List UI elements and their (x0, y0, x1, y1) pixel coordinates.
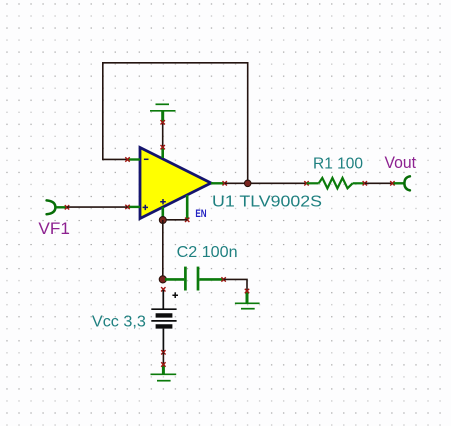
voltage generator VF1 (hook terminal) (47, 200, 56, 214)
wire: R1 to Vout terminal (365, 182, 393, 184)
pin-end marker x at top ground (161, 120, 165, 124)
wire: V+ node down to supply node (162, 220, 164, 279)
op-amp U1 positive supply marker (+) (160, 199, 166, 204)
op-amp U1 V+ supply pin (162, 207, 165, 220)
terminal Vout (voltage pin hook) (394, 182, 405, 184)
battery Vcc polarity label (+) (172, 292, 178, 298)
svg-text:C2 100n: C2 100n (177, 244, 238, 261)
svg-text:U1 TLV9002S: U1 TLV9002S (212, 194, 322, 211)
op-amp U1 top pin (V-) (161, 147, 164, 158)
svg-text:R1 100: R1 100 (313, 156, 363, 173)
junction: V+ node below op-amp (159, 217, 166, 224)
pin-end marker x at bottom ground (161, 362, 165, 366)
op-amp U1 inverting input pin (128, 158, 141, 160)
op-amp U1 inverting input marker (-) (144, 158, 149, 160)
battery Vcc 3,3 (151, 290, 176, 352)
junction: output node (feedback tap) (244, 180, 251, 187)
svg-text:VF1: VF1 (38, 219, 70, 238)
capacitor C2 (165, 267, 226, 291)
wire: C2 to right ground (224, 279, 247, 291)
ground GND top (negative supply of op-amp, symbol points up) (150, 104, 176, 122)
op-amp U1 non-inverting input marker (+) (143, 205, 148, 210)
op-amp U1 non-inverting input pin (128, 206, 141, 208)
wire: output node to R1 (225, 182, 307, 184)
op-amp U1 body (triangle) (140, 148, 211, 219)
junction: supply node (battery / C2 tap) (159, 276, 166, 283)
pin-end marker x at right ground (245, 289, 249, 293)
ground right of C2 (235, 291, 260, 309)
ground bottom (151, 365, 177, 381)
op-amp U1 EN pin (186, 195, 189, 220)
pin-end marker x below battery (161, 350, 165, 354)
pin-end marker x above battery (161, 287, 165, 291)
resistor R1 (304, 178, 367, 188)
wire: feedback loop from output node up/left/down to inverting input (103, 63, 248, 184)
wire: EN tied to V+ node (163, 219, 187, 221)
svg-text:Vcc 3,3: Vcc 3,3 (92, 313, 146, 330)
op-amp U1 output pin (211, 182, 225, 184)
svg-text:Vout: Vout (385, 154, 417, 172)
wire: VF1 to non-inverting input (67, 206, 128, 208)
wire: top ground to op-amp top pin (162, 122, 164, 147)
wire: battery to bottom ground (162, 352, 164, 364)
svg-text:EN: EN (195, 208, 206, 220)
